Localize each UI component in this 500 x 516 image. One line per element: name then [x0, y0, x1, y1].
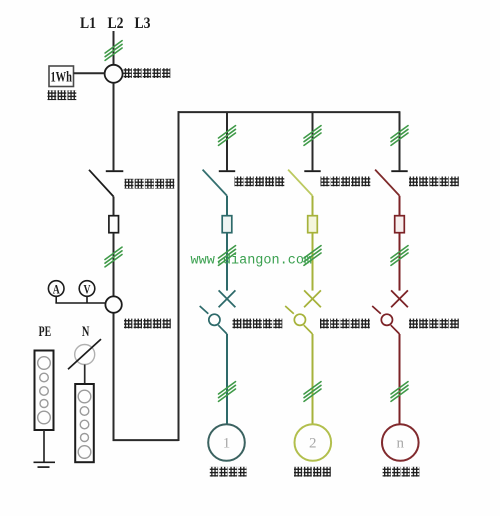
branch isolator switch 2 分隔离开关 [288, 170, 321, 196]
RCCB 1 blade with operating coil [200, 306, 227, 334]
wire: CT2 down to bottom corner [113, 313, 115, 441]
wire: branch 3 isolator to fuse [399, 196, 401, 216]
label 分配电箱 (branch 2) [294, 467, 331, 477]
wire: incoming supply below L2 [113, 31, 115, 65]
svg-text:A: A [53, 281, 60, 296]
svg-text:1: 1 [223, 436, 231, 452]
energy meter 1Wh [49, 66, 74, 87]
branch isolator switch 1 分隔离开关 [203, 170, 236, 196]
label 分隔离开关 (branch 1) [235, 177, 285, 187]
distribution box circle n [382, 424, 419, 461]
N busbar [75, 384, 94, 462]
wire: branch 2 fuse to breaker [312, 233, 314, 291]
ammeter A [48, 281, 64, 297]
wire: distribution bus [178, 111, 401, 113]
wire: branch 1 drop from bus [226, 112, 228, 170]
svg-text:L1: L1 [80, 15, 96, 32]
current transformer CT1 [105, 65, 123, 83]
wire: bus riser up [178, 111, 180, 441]
distribution box circle 2 [295, 424, 332, 461]
current transformer CT2 [105, 296, 121, 312]
label 总隔离开关 [125, 179, 175, 189]
wire: branch 1 fuse to breaker [226, 233, 228, 291]
svg-text:n: n [397, 436, 405, 452]
label 电流互感器 (CT2) [124, 319, 171, 329]
label 漏电断路器 (branch 3) [409, 319, 459, 329]
distribution box circle 1 [208, 424, 245, 461]
RCCB 2 contact cross [304, 290, 321, 307]
wire: branch 3 breaker to distribution box [399, 334, 401, 424]
wire: main fuse to CT2 [113, 233, 115, 297]
wire: branch 1 breaker to distribution box [226, 334, 228, 424]
label 分隔离开关 (branch 3) [409, 177, 459, 187]
svg-text:PE: PE [39, 324, 52, 340]
three-phase hatch on branch 1 above box [219, 382, 236, 402]
main fuse [109, 216, 119, 233]
fuse branch 1 [222, 216, 232, 233]
ground symbol [34, 462, 56, 467]
RCCB 1 contact cross [219, 290, 236, 307]
voltmeter V [79, 281, 95, 297]
three-phase hatch on branch 2 drop [304, 126, 321, 146]
svg-text:N: N [82, 324, 90, 340]
three-phase hatch on branch 1 above breaker [219, 246, 236, 266]
wire: branch 2 breaker to distribution box [312, 334, 314, 424]
svg-text:L2: L2 [108, 15, 124, 32]
branch isolator switch 3 分隔离开关 [375, 170, 408, 196]
label 漏电断路器 (branch 2) [320, 319, 370, 329]
svg-text:1Wh: 1Wh [50, 70, 72, 86]
RCCB 3 blade with operating coil [372, 306, 399, 334]
fuse branch 3 [395, 216, 405, 233]
three-phase hatch on branch 3 above breaker [391, 246, 408, 266]
fuse branch 2 [308, 216, 318, 233]
wire: link to N busbar [84, 365, 86, 385]
wire: meters to CT2 [55, 296, 105, 303]
PE busbar [35, 351, 54, 431]
wire: branch 1 isolator to fuse [226, 196, 228, 216]
three-phase hatch on branch 2 above breaker [304, 246, 321, 266]
wire: meter to CT1 [74, 72, 105, 74]
label 漏电断路器 (branch 1) [233, 319, 283, 329]
three-phase hatch on main wire below fuse [105, 247, 122, 267]
svg-text:V: V [84, 281, 91, 296]
svg-text:L3: L3 [135, 15, 151, 32]
wire: branch 2 drop from bus [312, 112, 314, 170]
label 电度表 [48, 90, 77, 100]
RCCB 3 contact cross [391, 290, 408, 307]
svg-text:2: 2 [309, 436, 317, 452]
svg-text:www.diangon.com: www.diangon.com [191, 254, 313, 269]
label 分配电箱 (branch 3) [383, 467, 420, 477]
wire: CT1 down to main isolator [113, 83, 115, 171]
neutral isolating link [68, 339, 101, 369]
wire: branch 3 fuse to breaker [399, 233, 401, 291]
wire: bottom run to bus riser [113, 439, 179, 441]
label 分隔离开关 (branch 2) [321, 177, 371, 187]
three-phase hatch on branch 3 above box [391, 382, 408, 402]
three-phase hatch on incoming wire [105, 41, 122, 61]
RCCB 2 blade with operating coil [285, 306, 312, 334]
wire: branch 3 drop from bus [399, 112, 401, 170]
three-phase hatch on branch 3 drop [391, 126, 408, 146]
wire: branch 2 isolator to fuse [312, 196, 314, 216]
wire: isolator to main fuse [113, 197, 115, 216]
main isolator switch 总隔离开关 [89, 170, 123, 197]
label 电流互感器 (CT1) [124, 68, 171, 78]
three-phase hatch on branch 2 above box [304, 382, 321, 402]
three-phase hatch on branch 1 drop [219, 126, 236, 146]
wire: PE bar to ground [43, 430, 45, 462]
label 分配电箱 (branch 1) [210, 467, 247, 477]
